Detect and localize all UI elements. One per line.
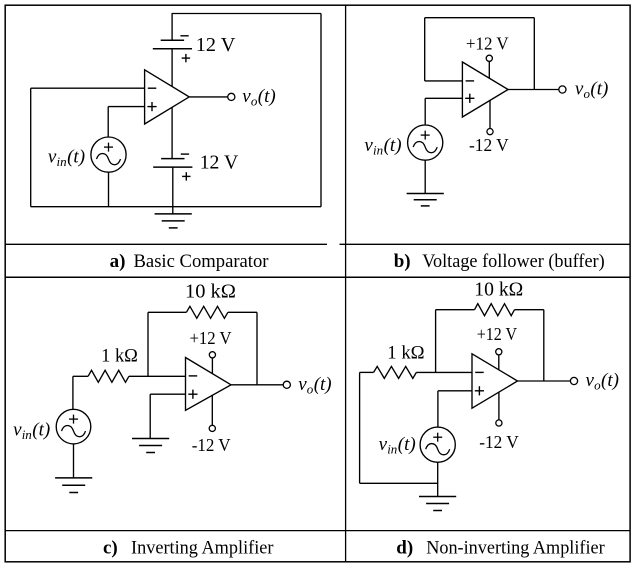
svg-text:+12 V: +12 V [466,33,509,53]
wire: panel-a lower battery to ground node [172,167,174,214]
svg-text:d): d) [396,537,413,558]
svg-text:(t): (t) [258,86,276,107]
wire: panel-b noninverting input [425,97,462,99]
ground (panel c source) [55,478,92,493]
label vin(t) (panel b) [364,135,401,158]
svg-text:(t): (t) [67,146,85,167]
ground (panel c op-amp) [132,439,169,453]
wire: panel-b source bottom lead [424,160,426,193]
wire: panel-d feedback left segment [436,309,475,311]
resistor 1 kOhm (panel c) [88,370,129,382]
wire: panel-b feedback right [533,18,535,90]
svg-text:Non-inverting Amplifier: Non-inverting Amplifier [426,537,605,558]
ground (panel d) [419,497,456,511]
svg-text:(t): (t) [32,420,50,441]
svg-text:-12 V: -12 V [192,435,231,455]
wire: panel-b inverting input [425,80,463,82]
wire: panel-b feedback left [424,18,426,81]
source vin(t) (panel d) [420,427,455,462]
svg-text:(t): (t) [601,370,619,391]
wire: panel-c feedback right drop [256,312,258,385]
wire: panel-a upper battery to op-amp top [171,49,173,86]
svg-text:1 kΩ: 1 kΩ [387,343,424,364]
wire: panel-c feedback left segment [148,311,186,313]
wire: panel-a source top lead [107,107,109,137]
svg-text:(t): (t) [314,374,332,395]
caption a [110,251,270,272]
svg-text:+12 V: +12 V [190,328,232,348]
pin V+ (panel c) [209,352,215,374]
wire: panel-c feedback right segment [228,311,257,313]
wire: panel-c noninverting ground drop [149,394,151,438]
svg-text:in: in [22,427,32,442]
wire: panel-a inverting input [31,87,145,89]
wire: panel-c input left segment [73,375,88,377]
svg-text:(t): (t) [590,79,608,100]
wire: panel-d feedback right segment [515,309,544,311]
wire: panel-d source bottom lead [437,462,439,496]
resistor 10 kOhm (panel d) [475,304,515,316]
resistor 1 kOhm (panel d) [374,366,417,378]
wire: panel-d feedback left drop [435,310,437,373]
wire: panel-a noninverting input [108,106,144,108]
wire: panel-a op-amp bottom to lower battery [171,108,173,159]
wire: panel-d inverting input [416,371,472,373]
wire: panel-d output [518,380,571,382]
label vo(t) (panel a) [242,86,275,109]
output terminal (panel d) [570,377,577,384]
pin V+ (panel d) [496,349,502,370]
wire: panel-b feedback top [425,17,535,19]
svg-text:(t): (t) [384,135,402,156]
wire: panel-a output [189,96,228,98]
label vin(t) (panel c) [13,420,50,443]
wire: panel-a top rail [172,13,322,15]
svg-text:(t): (t) [398,434,416,455]
battery 12 V (upper, panel a) [153,36,192,63]
op-amp U3 (inverting) [186,358,232,411]
pin V- (panel d) [496,392,502,426]
wire: panel-d noninverting input [438,390,472,392]
pin V- (panel b) [487,100,493,134]
source vin(t) (panel c) [56,409,91,444]
svg-text:a): a) [110,251,126,272]
wire: panel-a bottom rail [31,206,321,208]
output terminal (panel c) [283,381,290,388]
svg-text:Inverting Amplifier: Inverting Amplifier [131,537,274,558]
op-amp U2 (follower) [462,62,508,117]
wire: panel-c source top lead [72,376,74,409]
svg-text:+12 V: +12 V [477,324,517,344]
svg-text:-12 V: -12 V [469,135,509,155]
wire: panel-c feedback left drop [147,312,149,376]
svg-text:-12 V: -12 V [479,432,519,452]
wire: panel-d source top lead [437,391,439,427]
svg-text:in: in [387,442,397,457]
svg-text:12 V: 12 V [200,152,239,174]
wire: panel-a right side of loop [320,14,322,207]
wire: panel-a source bottom lead [108,172,110,207]
wire: panel-b output [508,89,559,91]
wire: panel-c inverting input [129,375,186,377]
label vin(t) (panel d) [379,434,416,457]
caption d [396,537,605,558]
svg-text:Basic Comparator: Basic Comparator [134,251,270,272]
label vo(t) (panel b) [575,79,608,102]
op-amp U4 (non-inverting) [472,354,518,408]
wire: panel-d left drop to bottom rail [359,372,361,483]
resistor 10 kOhm (panel c) [186,306,228,318]
caption b [394,251,605,272]
svg-text:in: in [373,142,383,157]
source vin(t) (panel b) [408,125,443,160]
label vo(t) (panel c) [298,374,331,397]
svg-text:in: in [57,154,67,169]
ground (panel a) [155,214,192,228]
wire: panel-c output [231,384,283,386]
wire: panel-d feedback right drop [543,310,545,381]
svg-text:c): c) [103,537,118,558]
output terminal (panel b) [559,86,566,93]
wire: panel-b source top lead [424,98,426,125]
svg-text:10 kΩ: 10 kΩ [474,279,523,301]
label vo(t) (panel d) [586,370,619,393]
wire: panel-a battery V+ top lead [171,14,173,41]
svg-text:Voltage follower (buffer): Voltage follower (buffer) [422,251,605,272]
output terminal (panel a) [228,93,235,100]
wire: panel-c source bottom lead [73,444,75,478]
label vin(t) (panel a) [48,146,85,169]
caption c [103,537,274,558]
battery 12 V (lower, panel a) [153,154,192,181]
wire: panel-d input left segment [360,371,374,373]
pin V- (panel c) [209,395,215,431]
wire: panel-a left side of loop [30,88,32,207]
op-amp U1 (comparator) [145,70,190,124]
source vin(t) (panel a) [91,137,126,172]
svg-text:1 kΩ: 1 kΩ [101,345,138,366]
wire: panel-c noninverting input [150,393,185,395]
svg-text:12 V: 12 V [196,34,236,56]
pin V+ (panel b) [486,55,492,78]
wire: panel-d bottom rail [360,482,438,484]
svg-text:b): b) [394,251,411,272]
ground (panel b) [407,194,444,206]
svg-text:10 kΩ: 10 kΩ [185,280,236,302]
